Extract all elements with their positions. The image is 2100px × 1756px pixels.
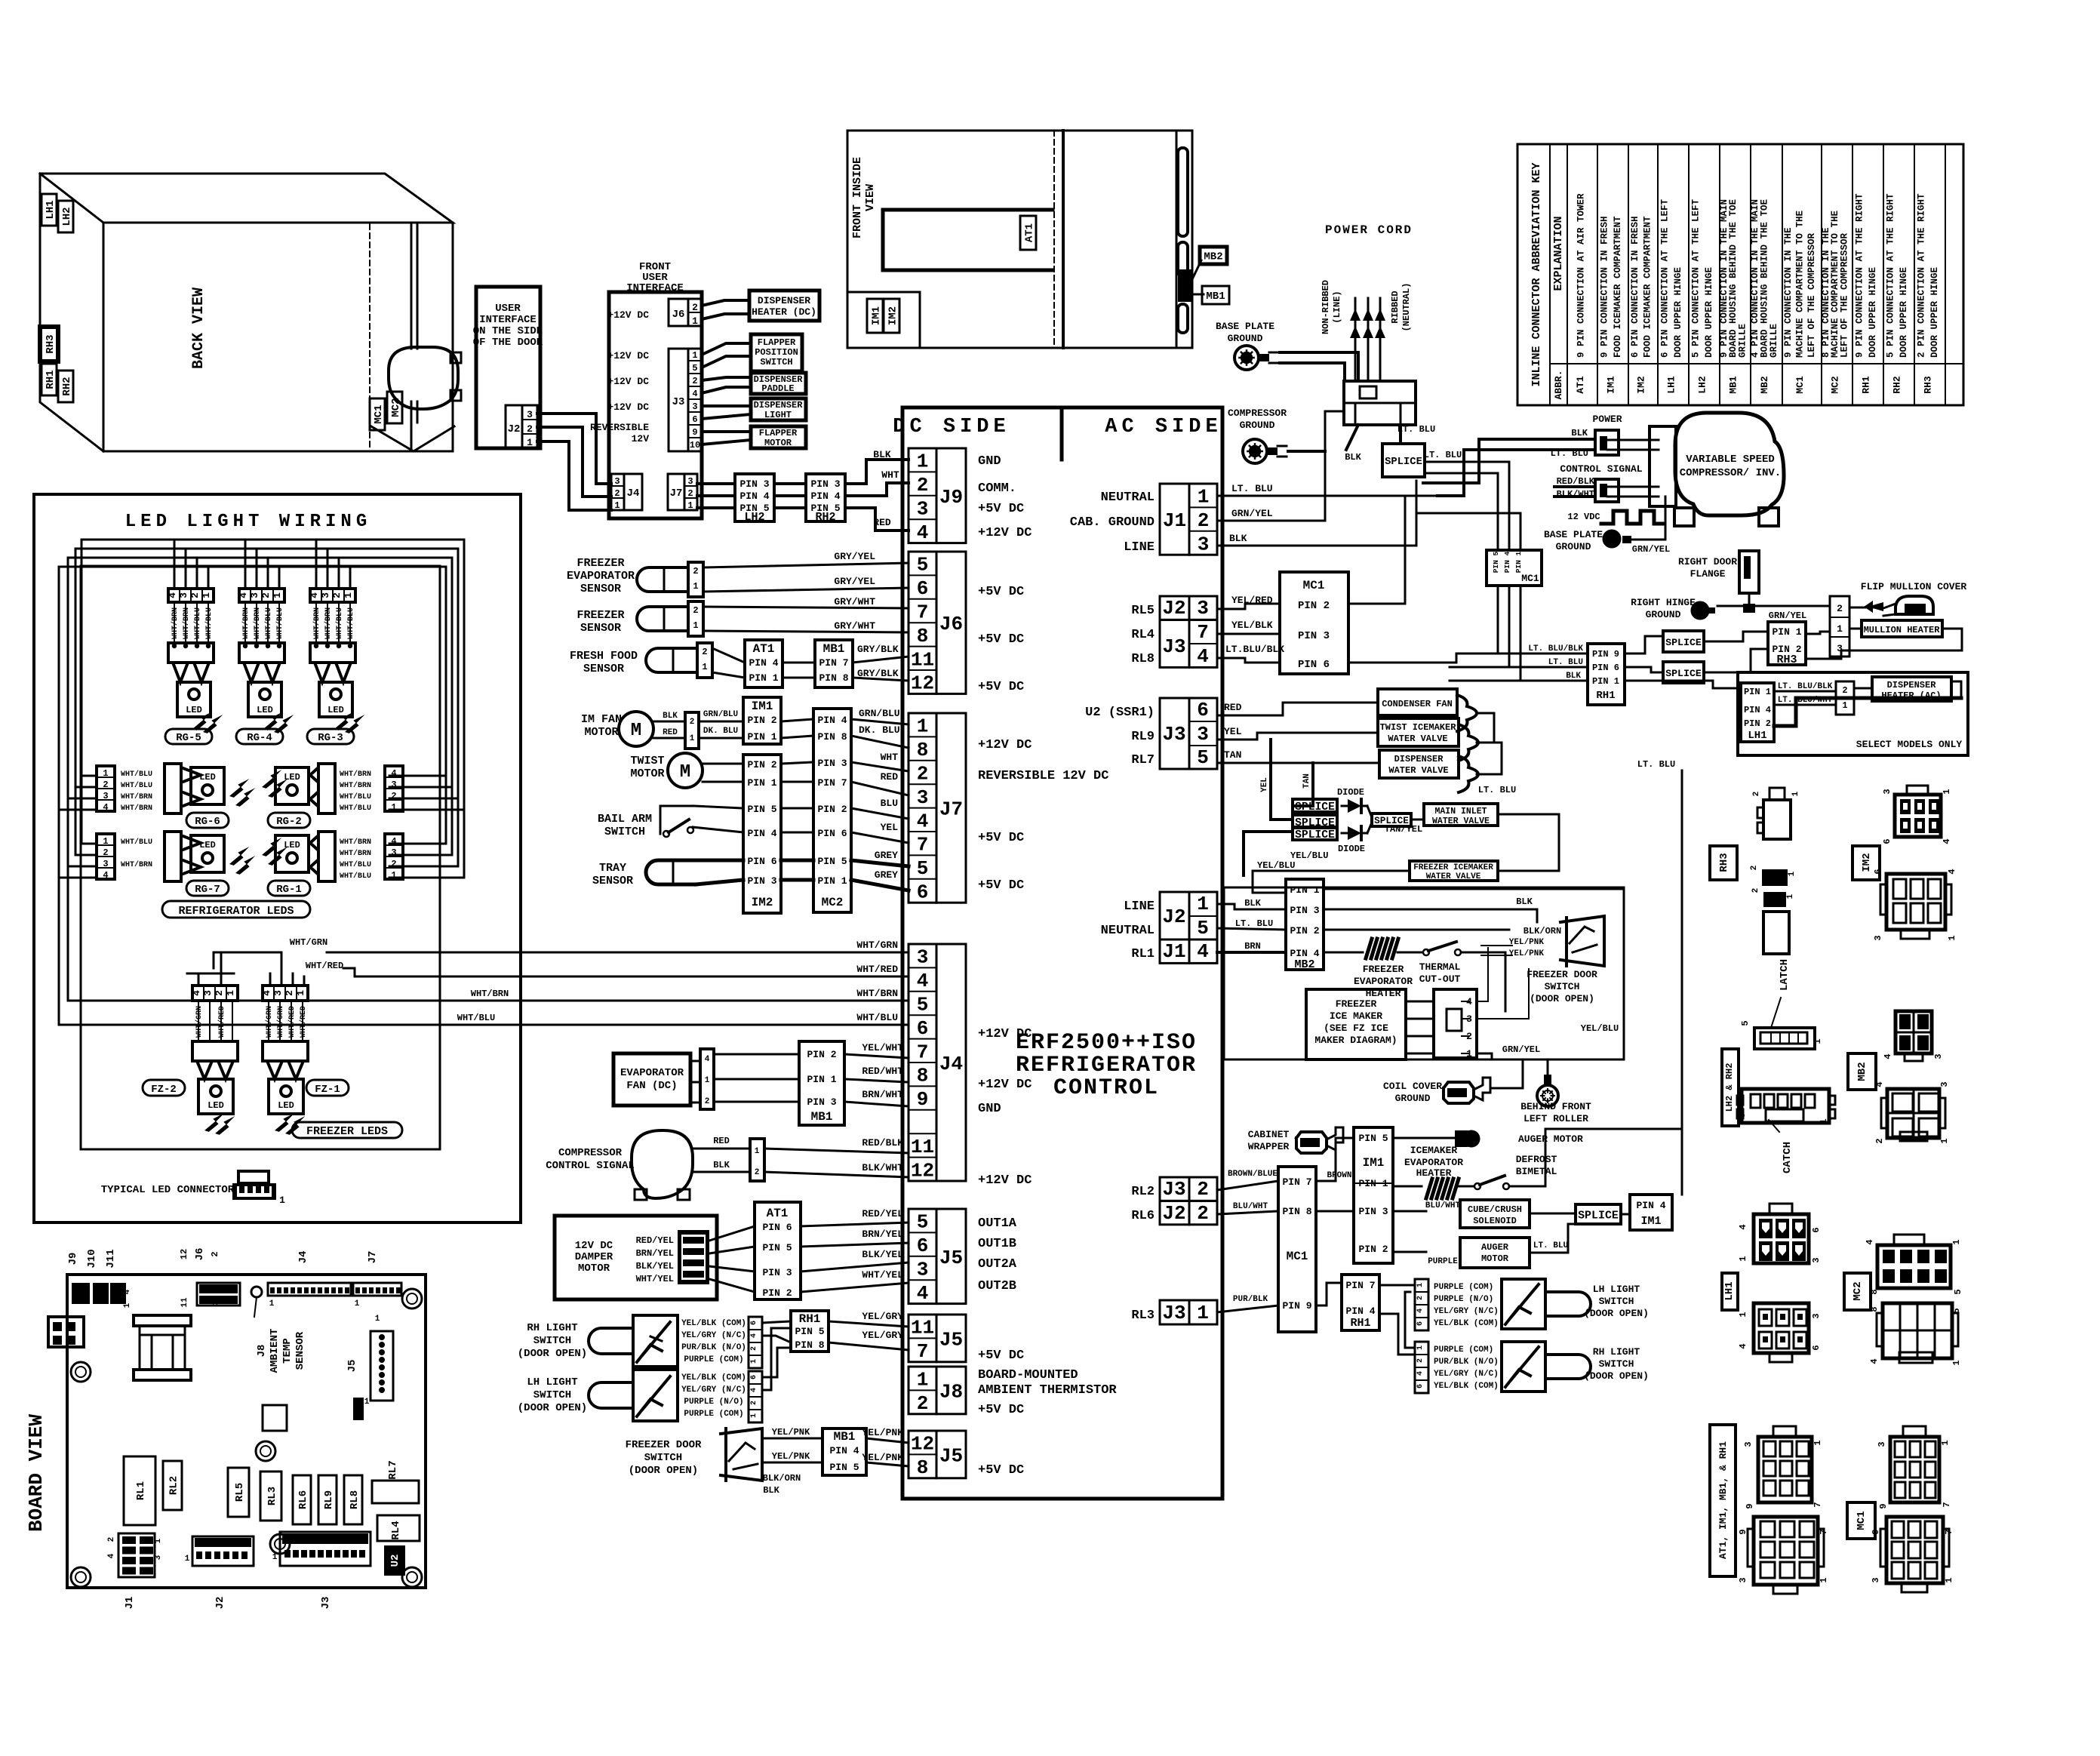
svg-text:12: 12 bbox=[911, 1433, 934, 1456]
svg-text:GRY/YEL: GRY/YEL bbox=[834, 551, 875, 562]
svg-text:COMPRESSOR/ INV.: COMPRESSOR/ INV. bbox=[1680, 467, 1781, 479]
board transformer bbox=[134, 1315, 191, 1326]
svg-text:12V DC: 12V DC bbox=[575, 1240, 613, 1252]
cube/crush solenoid box bbox=[1393, 1210, 1426, 1213]
svg-text:6: 6 bbox=[1416, 1321, 1425, 1326]
board connector J2 bbox=[192, 1536, 254, 1566]
led connector RG-7 pins bbox=[97, 834, 115, 879]
wire main inlet loop bbox=[1498, 814, 1559, 871]
svg-text:RED/YEL: RED/YEL bbox=[862, 1208, 903, 1219]
LH1 face 2 bbox=[1754, 1303, 1809, 1353]
svg-text:DOOR UPPER HINGE: DOOR UPPER HINGE bbox=[1673, 267, 1683, 358]
svg-text:RH3: RH3 bbox=[1718, 853, 1730, 872]
svg-text:(DOOR OPEN): (DOOR OPEN) bbox=[518, 1348, 587, 1360]
svg-text:2: 2 bbox=[1416, 1296, 1425, 1300]
led module RG-1 connector bbox=[318, 832, 335, 881]
svg-text:3: 3 bbox=[687, 476, 693, 487]
svg-text:SWITCH: SWITCH bbox=[1545, 981, 1580, 992]
svg-text:WHT/YEL: WHT/YEL bbox=[636, 1274, 674, 1284]
svg-text:SENSOR: SENSOR bbox=[580, 622, 621, 635]
svg-text:PIN 7: PIN 7 bbox=[1345, 1280, 1375, 1291]
svg-text:12 VDC: 12 VDC bbox=[1567, 512, 1600, 522]
svg-text:YEL/PNK: YEL/PNK bbox=[772, 1451, 810, 1462]
svg-text:MC1: MC1 bbox=[1287, 1250, 1308, 1263]
svg-text:WHT/BRN: WHT/BRN bbox=[121, 860, 152, 869]
svg-text:3: 3 bbox=[614, 476, 620, 487]
valve return bus bbox=[1437, 496, 1477, 713]
mullion strip bbox=[1178, 148, 1188, 236]
svg-text:1: 1 bbox=[211, 1299, 220, 1305]
svg-text:USER: USER bbox=[495, 303, 521, 315]
svg-text:11: 11 bbox=[911, 1317, 934, 1339]
connector MB1 freezer door switch bbox=[822, 1428, 866, 1475]
svg-text:DOOR UPPER HINGE: DOOR UPPER HINGE bbox=[1704, 267, 1714, 358]
svg-text:RG-6: RG-6 bbox=[195, 816, 220, 828]
inline connector abbreviation key table bbox=[1517, 144, 1963, 405]
svg-text:PIN 5: PIN 5 bbox=[795, 1326, 824, 1337]
svg-text:6: 6 bbox=[1882, 838, 1892, 844]
svg-text:4: 4 bbox=[167, 592, 178, 598]
svg-text:FREEZER DOOR: FREEZER DOOR bbox=[1527, 969, 1597, 980]
label FZ-2 bbox=[143, 1080, 185, 1096]
svg-text:PIN 4: PIN 4 bbox=[1345, 1305, 1375, 1317]
svg-text:WHT/BRN: WHT/BRN bbox=[340, 849, 371, 858]
svg-text:3: 3 bbox=[1738, 1577, 1748, 1582]
svg-text:PIN 7: PIN 7 bbox=[819, 657, 848, 669]
connector J7 front user interface bbox=[668, 474, 684, 510]
svg-text:1: 1 bbox=[917, 1369, 929, 1392]
svg-text:CONTROL: CONTROL bbox=[1053, 1075, 1159, 1101]
svg-text:LH2: LH2 bbox=[61, 207, 73, 226]
svg-text:3: 3 bbox=[1198, 534, 1210, 556]
wires control to MC1 bbox=[1217, 1181, 1278, 1190]
svg-text:MOTOR: MOTOR bbox=[584, 726, 618, 739]
svg-text:3: 3 bbox=[1811, 1313, 1822, 1318]
svg-text:7: 7 bbox=[917, 1340, 929, 1363]
svg-text:CONDENSER FAN: CONDENSER FAN bbox=[1382, 699, 1453, 709]
svg-text:GRY/YEL: GRY/YEL bbox=[834, 576, 875, 587]
svg-text:4: 4 bbox=[750, 1333, 758, 1338]
svg-text:1: 1 bbox=[375, 1315, 380, 1324]
tag AT1 bbox=[1020, 216, 1036, 250]
svg-text:AC SIDE: AC SIDE bbox=[1105, 416, 1222, 438]
svg-text:EVAPORATOR: EVAPORATOR bbox=[1404, 1157, 1463, 1168]
svg-text:2: 2 bbox=[693, 566, 698, 577]
board J8 ambient temp sensor label bbox=[251, 1287, 262, 1297]
svg-text:FLAPPER: FLAPPER bbox=[758, 337, 796, 348]
compressor feet bbox=[1674, 508, 1694, 526]
svg-text:2: 2 bbox=[917, 763, 929, 786]
svg-text:PUR/BLK (N/O): PUR/BLK (N/O) bbox=[681, 1343, 746, 1352]
RH light switch box ac bbox=[1502, 1342, 1545, 1392]
svg-text:HEATER: HEATER bbox=[1416, 1167, 1452, 1179]
svg-text:J3: J3 bbox=[320, 1597, 332, 1610]
svg-text:SWITCH: SWITCH bbox=[533, 1335, 571, 1347]
svg-text:GRILLE: GRILLE bbox=[1769, 324, 1779, 358]
svg-text:5: 5 bbox=[1951, 1308, 1962, 1313]
svg-text:LEFT ROLLER: LEFT ROLLER bbox=[1523, 1113, 1588, 1124]
svg-text:RH2: RH2 bbox=[1892, 376, 1903, 394]
svg-text:WHT/BRN: WHT/BRN bbox=[340, 770, 371, 779]
connector AT1 fresh food bbox=[745, 640, 783, 687]
svg-text:+5V DC: +5V DC bbox=[978, 632, 1024, 647]
svg-text:6: 6 bbox=[1811, 1227, 1822, 1232]
svg-text:YEL/BLK (COM): YEL/BLK (COM) bbox=[681, 1319, 746, 1328]
svg-text:BRN/YEL: BRN/YEL bbox=[862, 1229, 903, 1240]
svg-text:6: 6 bbox=[917, 881, 929, 904]
connector J4 front user interface bbox=[611, 474, 624, 510]
svg-text:MB2: MB2 bbox=[1856, 1062, 1868, 1081]
back view base diagonals bbox=[371, 426, 454, 451]
svg-text:+5V DC: +5V DC bbox=[978, 1463, 1024, 1478]
connector RH1 light switches bbox=[791, 1311, 829, 1352]
svg-text:SPLICE: SPLICE bbox=[1665, 668, 1702, 679]
svg-text:J3: J3 bbox=[1162, 635, 1185, 658]
svg-text:8: 8 bbox=[917, 739, 929, 761]
svg-text:J2: J2 bbox=[214, 1597, 226, 1610]
svg-text:12: 12 bbox=[911, 672, 934, 695]
svg-text:CATCH: CATCH bbox=[1782, 1142, 1794, 1173]
svg-text:2: 2 bbox=[687, 488, 693, 499]
svg-text:FRESH FOOD: FRESH FOOD bbox=[570, 650, 638, 663]
svg-text:PIN 5: PIN 5 bbox=[1358, 1133, 1388, 1144]
led module RG-5 connector bbox=[168, 643, 214, 663]
svg-text:PIN 4: PIN 4 bbox=[817, 715, 847, 726]
tag RH1 bbox=[42, 364, 57, 395]
svg-text:+12V DC: +12V DC bbox=[607, 376, 649, 387]
wire dispenser heater drop bbox=[1681, 770, 1683, 1195]
CATCH connector bbox=[1742, 1089, 1829, 1123]
svg-text:REFRIGERATOR: REFRIGERATOR bbox=[1016, 1053, 1197, 1078]
svg-text:2: 2 bbox=[1198, 509, 1210, 532]
svg-text:NON-RIBBED: NON-RIBBED bbox=[1321, 280, 1331, 334]
svg-text:YEL/WHT: YEL/WHT bbox=[862, 1042, 903, 1053]
refrigerator led bus wires bbox=[81, 539, 464, 541]
svg-text:7: 7 bbox=[1813, 1502, 1823, 1507]
svg-text:+12V DC: +12V DC bbox=[607, 401, 649, 413]
label RG-3 bbox=[307, 729, 354, 744]
svg-text:J8: J8 bbox=[939, 1380, 963, 1403]
svg-text:1: 1 bbox=[1947, 935, 1957, 940]
diode 1 bbox=[1348, 799, 1361, 813]
svg-text:BLK/WHT: BLK/WHT bbox=[862, 1162, 903, 1173]
connector J5 block outputs bbox=[909, 1209, 936, 1304]
svg-text:RL6: RL6 bbox=[1131, 1209, 1155, 1223]
svg-text:LT. BLU: LT. BLU bbox=[1637, 759, 1675, 770]
svg-text:AT1: AT1 bbox=[1023, 223, 1035, 242]
svg-text:OUT2A: OUT2A bbox=[978, 1257, 1017, 1272]
svg-text:9: 9 bbox=[1745, 1503, 1755, 1508]
svg-text:1: 1 bbox=[1738, 1312, 1748, 1317]
svg-text:FREEZER LEDS: FREEZER LEDS bbox=[306, 1125, 388, 1138]
MC1 face 2 bbox=[1886, 1517, 1943, 1583]
dispenser paddle box bbox=[751, 373, 806, 394]
svg-text:FLAPPER: FLAPPER bbox=[759, 428, 798, 438]
svg-text:LH2: LH2 bbox=[1697, 376, 1708, 394]
svg-text:GROUND: GROUND bbox=[1556, 541, 1591, 552]
svg-text:PIN 5: PIN 5 bbox=[762, 1242, 792, 1253]
svg-text:IM1: IM1 bbox=[870, 306, 882, 325]
svg-text:2: 2 bbox=[1842, 685, 1847, 696]
board screw holes bbox=[71, 1362, 91, 1382]
RH3 face 1 bbox=[1763, 800, 1791, 839]
svg-text:WHT/BLU: WHT/BLU bbox=[340, 792, 371, 801]
svg-text:SENSOR: SENSOR bbox=[592, 875, 633, 887]
svg-text:BRN/WHT: BRN/WHT bbox=[862, 1089, 903, 1100]
svg-text:J11: J11 bbox=[105, 1249, 117, 1268]
led connector RG-3 pins bbox=[310, 589, 355, 602]
svg-text:1: 1 bbox=[1951, 1360, 1962, 1365]
tag LH2 & RH2 bbox=[1722, 1049, 1739, 1126]
svg-text:J4: J4 bbox=[939, 1053, 963, 1075]
wires MB1 to J5 12-8 bbox=[866, 1438, 909, 1443]
svg-text:WHT/BLU: WHT/BLU bbox=[856, 1012, 898, 1023]
svg-text:+5V DC: +5V DC bbox=[978, 878, 1024, 893]
svg-text:RH1: RH1 bbox=[45, 370, 57, 389]
right bus verticals bbox=[445, 567, 447, 844]
svg-text:EVAPORATOR: EVAPORATOR bbox=[1354, 976, 1413, 987]
connector J3 block U2 RL9 RL7 bbox=[1160, 698, 1189, 769]
svg-text:4: 4 bbox=[917, 1282, 929, 1305]
svg-text:ICE MAKER: ICE MAKER bbox=[1330, 1010, 1382, 1022]
svg-text:DOOR UPPER HINGE: DOOR UPPER HINGE bbox=[1929, 267, 1940, 358]
led module FZ-2 body bbox=[198, 1079, 233, 1114]
svg-text:WHT/BLU: WHT/BLU bbox=[121, 770, 152, 779]
svg-text:GROUND: GROUND bbox=[1240, 420, 1275, 431]
svg-text:(SEE FZ ICE: (SEE FZ ICE bbox=[1324, 1023, 1388, 1034]
svg-text:LIGHT: LIGHT bbox=[764, 410, 792, 420]
svg-text:INTERFACE: INTERFACE bbox=[479, 314, 537, 326]
svg-text:BLK/ORN: BLK/ORN bbox=[763, 1473, 801, 1484]
connector MB1 evap fan bbox=[799, 1041, 844, 1125]
svg-text:DIODE: DIODE bbox=[1338, 844, 1365, 854]
svg-text:FREEZER: FREEZER bbox=[577, 557, 624, 570]
svg-text:YEL/PNK: YEL/PNK bbox=[862, 1452, 903, 1463]
svg-text:LINE: LINE bbox=[1124, 540, 1155, 555]
svg-text:4: 4 bbox=[123, 1289, 132, 1294]
svg-text:+12V DC: +12V DC bbox=[978, 1078, 1032, 1092]
svg-text:BASE PLATE: BASE PLATE bbox=[1216, 321, 1274, 332]
splice power bbox=[1382, 444, 1425, 477]
svg-text:5: 5 bbox=[917, 994, 929, 1016]
splice to main inlet bbox=[1372, 813, 1411, 826]
svg-text:BLU: BLU bbox=[881, 798, 898, 809]
svg-text:NEUTRAL: NEUTRAL bbox=[1101, 491, 1155, 505]
svg-text:IM2: IM2 bbox=[887, 306, 899, 325]
splice diode bank bbox=[1293, 763, 1313, 806]
freezer evaporator heater bbox=[1366, 939, 1372, 958]
wires freezer sensor to J6 bbox=[703, 607, 909, 608]
svg-text:J6: J6 bbox=[194, 1248, 206, 1261]
svg-text:CAB. GROUND: CAB. GROUND bbox=[1070, 515, 1155, 530]
svg-text:MC2: MC2 bbox=[1852, 1281, 1864, 1300]
svg-text:OUT2B: OUT2B bbox=[978, 1279, 1016, 1293]
svg-text:CUT-OUT: CUT-OUT bbox=[1419, 973, 1461, 985]
svg-text:1: 1 bbox=[391, 870, 396, 881]
wires J1 to power area bbox=[1217, 495, 1437, 497]
svg-text:PIN 4: PIN 4 bbox=[1290, 948, 1319, 959]
svg-text:J3: J3 bbox=[672, 396, 685, 408]
svg-text:LATCH: LATCH bbox=[1779, 959, 1791, 991]
wires rh1 to J5 bbox=[829, 1321, 909, 1327]
svg-text:GROUND: GROUND bbox=[1228, 333, 1263, 344]
svg-text:GRN/BLU: GRN/BLU bbox=[859, 708, 900, 719]
back view compressor hump bbox=[389, 347, 458, 409]
led module FZ-2 connector bbox=[192, 1041, 238, 1061]
svg-text:DK. BLU: DK. BLU bbox=[703, 727, 738, 736]
svg-text:PIN 4: PIN 4 bbox=[1636, 1200, 1665, 1211]
svg-text:RL2: RL2 bbox=[1131, 1185, 1155, 1199]
MC2 face 1 bbox=[1877, 1245, 1951, 1288]
svg-text:LT. BLU/BLK: LT. BLU/BLK bbox=[1778, 682, 1833, 691]
svg-text:LED: LED bbox=[327, 705, 344, 715]
svg-text:J2: J2 bbox=[1162, 906, 1185, 928]
svg-text:RIGHT DOOR: RIGHT DOOR bbox=[1678, 556, 1737, 567]
connector LH1 pins bbox=[1741, 683, 1774, 742]
svg-text:1: 1 bbox=[1788, 871, 1797, 876]
svg-text:FLIP MULLION COVER: FLIP MULLION COVER bbox=[1861, 581, 1967, 592]
tag MB2 faces bbox=[1848, 1053, 1876, 1090]
svg-text:RIBBED: RIBBED bbox=[1390, 291, 1401, 323]
svg-text:SOLENOID: SOLENOID bbox=[1473, 1216, 1517, 1226]
svg-text:+12V DC: +12V DC bbox=[607, 350, 649, 361]
svg-text:3: 3 bbox=[1871, 1577, 1881, 1582]
wires IM2 to MC2 bbox=[781, 762, 813, 764]
connector J6 block bbox=[909, 552, 936, 693]
led module RG-7 lightning bbox=[229, 842, 249, 868]
svg-text:RL1: RL1 bbox=[1131, 947, 1155, 961]
svg-text:LH2: LH2 bbox=[744, 511, 764, 524]
dispenser water valve box bbox=[1379, 750, 1459, 778]
freezer door switch ac bbox=[1560, 916, 1604, 966]
svg-text:FREEZER ICEMAKER: FREEZER ICEMAKER bbox=[1413, 863, 1493, 872]
svg-text:WHT/YEL: WHT/YEL bbox=[862, 1269, 903, 1281]
svg-text:BLK: BLK bbox=[1516, 896, 1533, 907]
svg-text:COMPRESSOR: COMPRESSOR bbox=[1228, 407, 1287, 419]
svg-text:SWITCH: SWITCH bbox=[1599, 1296, 1634, 1307]
svg-text:SENSOR: SENSOR bbox=[583, 663, 624, 675]
svg-text:PUR/BLK (N/O): PUR/BLK (N/O) bbox=[1434, 1358, 1499, 1367]
mullion heater box bbox=[1862, 620, 1942, 637]
svg-text:PIN 5: PIN 5 bbox=[747, 804, 776, 815]
svg-text:MB1: MB1 bbox=[1728, 376, 1739, 394]
svg-text:1: 1 bbox=[693, 581, 698, 592]
svg-text:3: 3 bbox=[1743, 1441, 1754, 1447]
wires AT1 damper to J5 bbox=[801, 1222, 909, 1226]
svg-text:GREY: GREY bbox=[875, 850, 898, 861]
svg-text:RH1: RH1 bbox=[1596, 690, 1615, 702]
wires MB2 right bbox=[1324, 888, 1624, 890]
svg-text:PIN 6: PIN 6 bbox=[762, 1222, 792, 1233]
svg-text:J1: J1 bbox=[1163, 509, 1186, 532]
svg-text:10: 10 bbox=[690, 440, 700, 451]
svg-text:YEL/GRY (N/C): YEL/GRY (N/C) bbox=[1434, 1370, 1499, 1379]
svg-text:PADDLE: PADDLE bbox=[761, 383, 794, 394]
svg-text:5: 5 bbox=[1737, 1112, 1748, 1118]
tag MB1 with pointer bbox=[1191, 294, 1204, 296]
svg-text:ON THE SIDE: ON THE SIDE bbox=[473, 325, 543, 337]
svg-text:J2: J2 bbox=[1162, 1202, 1185, 1225]
wire BLK power entry bbox=[1346, 425, 1358, 450]
svg-text:1: 1 bbox=[123, 1302, 132, 1308]
svg-text:PIN 3: PIN 3 bbox=[1290, 905, 1319, 916]
board connector J1 bbox=[118, 1533, 155, 1577]
svg-text:REFRIGERATOR LEDS: REFRIGERATOR LEDS bbox=[178, 905, 294, 918]
svg-text:6: 6 bbox=[1811, 1345, 1822, 1350]
svg-text:J4: J4 bbox=[627, 487, 640, 500]
svg-text:CABINET: CABINET bbox=[1248, 1129, 1290, 1140]
svg-text:FZ-2: FZ-2 bbox=[151, 1084, 177, 1096]
svg-text:BLK: BLK bbox=[1571, 428, 1588, 438]
svg-text:MC1: MC1 bbox=[1303, 579, 1325, 592]
led module FZ-1 arrows bbox=[267, 1061, 282, 1079]
svg-text:MB2: MB2 bbox=[1294, 958, 1314, 971]
led connector RG-2 pins bbox=[385, 766, 403, 811]
board U2 bbox=[384, 1545, 405, 1576]
svg-text:SPLICE: SPLICE bbox=[1295, 801, 1335, 813]
tag MC2 faces bbox=[1844, 1273, 1871, 1310]
svg-text:RL8: RL8 bbox=[349, 1490, 361, 1509]
svg-text:WHT/BRN: WHT/BRN bbox=[121, 804, 152, 813]
svg-text:PURPLE (COM): PURPLE (COM) bbox=[1434, 1283, 1493, 1292]
svg-text:+5V DC: +5V DC bbox=[978, 502, 1024, 516]
svg-text:LT.BLU/BLK: LT.BLU/BLK bbox=[1225, 644, 1284, 655]
flapper position switch box bbox=[751, 334, 802, 371]
svg-text:LH LIGHT: LH LIGHT bbox=[1593, 1284, 1640, 1295]
splice right 1 bbox=[1663, 631, 1704, 652]
label RG-7 bbox=[186, 881, 229, 896]
svg-text:YEL/GRY (N/C): YEL/GRY (N/C) bbox=[681, 1385, 746, 1395]
dispenser light box bbox=[751, 398, 806, 420]
variable speed compressor blob bbox=[1675, 413, 1784, 515]
svg-text:1: 1 bbox=[687, 500, 693, 511]
svg-text:4: 4 bbox=[705, 1055, 710, 1064]
led module RG-4 body bbox=[248, 682, 281, 717]
wires J2/J3 to MC1 bbox=[1217, 604, 1280, 609]
svg-text:6: 6 bbox=[692, 414, 697, 425]
svg-text:BOARD VIEW: BOARD VIEW bbox=[25, 1414, 48, 1532]
connector AT1 damper bbox=[755, 1202, 801, 1299]
splice icemaker bbox=[1576, 1204, 1621, 1224]
svg-text:BLK: BLK bbox=[1345, 452, 1361, 463]
svg-text:1: 1 bbox=[1198, 486, 1210, 509]
svg-text:4: 4 bbox=[103, 802, 108, 813]
svg-text:RED/YEL: RED/YEL bbox=[636, 1235, 674, 1246]
svg-text:PIN 3: PIN 3 bbox=[739, 478, 769, 490]
svg-text:MC1: MC1 bbox=[1521, 573, 1539, 584]
svg-text:1: 1 bbox=[527, 437, 533, 448]
svg-text:PIN 1: PIN 1 bbox=[1514, 551, 1523, 573]
connector MB2 block bbox=[1286, 879, 1324, 970]
svg-text:1: 1 bbox=[1416, 1345, 1425, 1350]
svg-text:BLK: BLK bbox=[873, 449, 891, 460]
svg-text:TAN: TAN bbox=[1302, 773, 1311, 789]
svg-text:4: 4 bbox=[1865, 1239, 1875, 1244]
svg-text:2: 2 bbox=[614, 488, 620, 499]
svg-text:PIN 1: PIN 1 bbox=[1592, 676, 1619, 687]
svg-text:5 PIN CONNECTION AT THE RIGHT: 5 PIN CONNECTION AT THE RIGHT bbox=[1886, 193, 1896, 358]
svg-text:DISPENSER: DISPENSER bbox=[754, 400, 804, 411]
label FREEZER LEDS bbox=[292, 1122, 402, 1138]
svg-text:7: 7 bbox=[917, 1041, 929, 1063]
svg-text:5: 5 bbox=[917, 554, 929, 577]
svg-text:IM1: IM1 bbox=[752, 700, 773, 713]
svg-text:FLANGE: FLANGE bbox=[1690, 568, 1726, 580]
svg-text:+12V DC: +12V DC bbox=[978, 1027, 1032, 1041]
svg-text:7: 7 bbox=[1944, 1529, 1954, 1534]
svg-text:YEL/BLU: YEL/BLU bbox=[1581, 1023, 1619, 1034]
select models only box bbox=[1738, 672, 1968, 755]
